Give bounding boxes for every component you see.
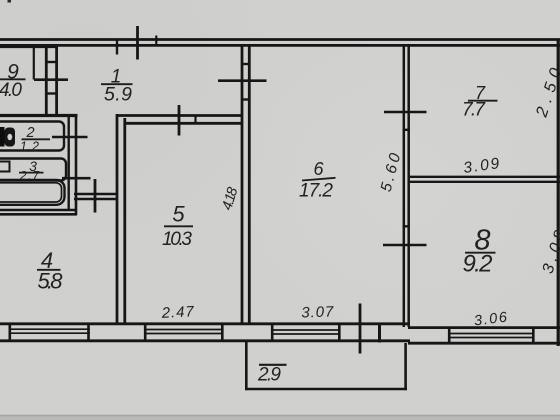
svg-text:4.0: 4.0 <box>0 80 22 101</box>
svg-text:7.7: 7.7 <box>462 100 486 121</box>
svg-text:17.2: 17.2 <box>299 181 333 202</box>
svg-text:3.07: 3.07 <box>301 303 334 321</box>
svg-text:2.47: 2.47 <box>160 303 194 322</box>
svg-text:5: 5 <box>172 202 185 227</box>
svg-text:1.2: 1.2 <box>20 140 39 154</box>
svg-text:9.2: 9.2 <box>463 251 493 278</box>
svg-text:5.9: 5.9 <box>104 84 132 106</box>
svg-text:10.3: 10.3 <box>162 229 192 250</box>
svg-text:5.8: 5.8 <box>38 269 64 294</box>
svg-text:2.7: 2.7 <box>19 169 40 183</box>
svg-text:2.9: 2.9 <box>257 365 281 386</box>
svg-text:6: 6 <box>313 159 324 179</box>
